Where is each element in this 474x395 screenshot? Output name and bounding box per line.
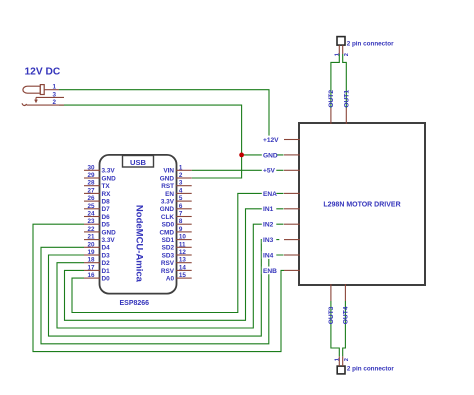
pin 15 (A0) of U1, right xyxy=(166,272,192,282)
pin OUT2 of L298N (top) xyxy=(328,90,335,124)
pin 18 (D2) of U1, left xyxy=(84,257,110,267)
pin 29 (GND) of U1, left xyxy=(84,172,116,182)
wire: GND junction to L298N GND pin xyxy=(242,154,284,156)
module U2 L298N motor driver xyxy=(299,123,425,285)
svg-text:27: 27 xyxy=(87,187,95,194)
svg-text:OUT2: OUT2 xyxy=(328,90,335,108)
svg-text:3: 3 xyxy=(179,180,183,187)
svg-text:2: 2 xyxy=(344,53,350,56)
svg-text:23: 23 xyxy=(87,218,95,225)
svg-text:16: 16 xyxy=(87,272,95,279)
wire: top connector pin2 to OUT1 xyxy=(343,54,347,108)
pin 6 (GND) of U1, right xyxy=(160,203,192,213)
pin 22 (GND) of U1, left xyxy=(84,226,116,236)
svg-text:12: 12 xyxy=(179,249,187,256)
svg-text:GND: GND xyxy=(160,206,175,213)
svg-text:26: 26 xyxy=(87,195,95,202)
pin IN3 of L298N with net label xyxy=(262,236,300,244)
svg-text:D6: D6 xyxy=(102,214,111,221)
connector J2 2 pin connector (top) xyxy=(337,37,345,46)
connector J3 2 pin connector (bottom) xyxy=(337,366,345,374)
svg-text:2: 2 xyxy=(179,172,183,179)
pin 16 (D0) of U1, left xyxy=(84,272,110,282)
pin OUT3 of L298N (bottom) xyxy=(328,284,335,324)
pin OUT1 of L298N (top) xyxy=(344,90,351,124)
svg-text:11: 11 xyxy=(179,241,186,248)
svg-text:CMD: CMD xyxy=(159,229,174,236)
svg-text:6: 6 xyxy=(179,203,183,210)
svg-text:13: 13 xyxy=(179,257,187,264)
wire: top connector pin1 to OUT2 xyxy=(331,54,339,108)
svg-text:1: 1 xyxy=(334,53,340,56)
pin 14 (RSV) of U1, right xyxy=(161,264,192,274)
label: 12V DC xyxy=(25,67,61,78)
svg-text:OUT4: OUT4 xyxy=(343,306,350,324)
svg-text:RSV: RSV xyxy=(161,268,175,275)
pin 12 (SD3) of U1, right xyxy=(162,249,192,259)
label: 2 pin connector (top) xyxy=(347,40,394,47)
svg-text:OUT1: OUT1 xyxy=(344,90,351,108)
wire: barrel jack pin1 to +12V of L298N xyxy=(59,90,269,138)
pin 21 (3.3V) of U1, left xyxy=(84,234,115,244)
svg-text:10: 10 xyxy=(179,234,187,241)
svg-text:SD0: SD0 xyxy=(162,222,175,229)
pin 28 (TX) of U1, left xyxy=(84,180,110,190)
svg-text:14: 14 xyxy=(179,264,187,271)
svg-text:29: 29 xyxy=(87,172,95,179)
wire: NodeMCU D0 to L298N ENA xyxy=(72,193,284,312)
svg-text:21: 21 xyxy=(87,234,95,241)
svg-text:3.3V: 3.3V xyxy=(102,237,116,244)
pin 2 (GND) of U1, right xyxy=(160,172,192,182)
svg-text:2: 2 xyxy=(52,99,56,106)
svg-text:D4: D4 xyxy=(102,245,111,252)
svg-text:RX: RX xyxy=(102,191,112,198)
svg-text:D7: D7 xyxy=(102,206,111,213)
svg-text:8: 8 xyxy=(179,218,183,225)
svg-text:20: 20 xyxy=(87,241,95,248)
pin 20 (D4) of U1, left xyxy=(84,241,110,251)
svg-text:+12V: +12V xyxy=(263,137,279,144)
svg-text:5: 5 xyxy=(179,195,183,202)
pin 9 (CMD) of U1, right xyxy=(159,226,191,236)
svg-text:2 pin connector: 2 pin connector xyxy=(347,40,394,47)
connector J1 barrel jack 12V DC xyxy=(22,85,44,106)
pin IN1 of L298N with net label xyxy=(262,205,300,213)
pin OUT4 of L298N (bottom) xyxy=(343,284,350,324)
wire: NodeMCU GND pin2 up to GND junction xyxy=(192,155,242,178)
pin IN4 of L298N with net label xyxy=(262,251,300,259)
svg-text:CLK: CLK xyxy=(161,214,175,221)
svg-text:3: 3 xyxy=(52,91,56,98)
svg-text:9: 9 xyxy=(179,226,183,233)
svg-text:RST: RST xyxy=(161,183,174,190)
pin 2 of J2 xyxy=(343,45,350,56)
pin 27 (RX) of U1, left xyxy=(84,187,111,197)
pin 3 (RST) of U1, right xyxy=(161,180,191,190)
svg-text:D1: D1 xyxy=(102,268,111,275)
svg-text:D3: D3 xyxy=(102,252,111,259)
svg-text:17: 17 xyxy=(87,264,95,271)
pin 26 (D8) of U1, left xyxy=(84,195,110,205)
svg-text:+5V: +5V xyxy=(263,168,276,175)
pin ENB of L298N with net label xyxy=(262,267,300,275)
pin 17 (D1) of U1, left xyxy=(84,264,110,274)
svg-text:25: 25 xyxy=(87,203,95,210)
pin 10 (SD1) of U1, right xyxy=(162,234,192,244)
wire: barrel jack pin2 to GND junction xyxy=(59,105,242,155)
pin 1 (VIN) of U1, right xyxy=(163,164,191,174)
pin +12V of L298N with net label xyxy=(262,136,300,144)
wire: NodeMCU D1 to L298N IN1 xyxy=(65,209,284,320)
svg-text:A0: A0 xyxy=(166,276,175,283)
svg-text:3.3V: 3.3V xyxy=(161,199,175,206)
pin 4 (EN) of U1, right xyxy=(165,187,192,197)
svg-text:12V DC: 12V DC xyxy=(25,67,61,78)
svg-text:SD2: SD2 xyxy=(162,245,175,252)
svg-text:IN4: IN4 xyxy=(263,252,274,259)
svg-text:GND: GND xyxy=(263,152,278,159)
svg-text:EN: EN xyxy=(165,191,174,198)
svg-text:TX: TX xyxy=(102,183,111,190)
pin 2 of J3 xyxy=(343,356,350,366)
label: 2 pin connector (bottom) xyxy=(347,366,394,373)
svg-text:ESP8266: ESP8266 xyxy=(120,300,150,307)
svg-text:1: 1 xyxy=(52,84,56,91)
pin 2 of J1 (sleeve) xyxy=(27,99,64,106)
svg-text:ENB: ENB xyxy=(263,268,277,275)
wire: NodeMCU D3 to L298N IN3 xyxy=(49,240,280,337)
label: ESP8266 value xyxy=(120,300,150,307)
svg-text:GND: GND xyxy=(102,175,117,182)
pin ENA of L298N with net label xyxy=(262,190,300,198)
svg-text:GND: GND xyxy=(102,229,117,236)
svg-text:7: 7 xyxy=(179,211,183,218)
svg-text:19: 19 xyxy=(87,249,95,256)
pin GND of L298N with net label xyxy=(262,151,300,159)
pin 11 (SD2) of U1, right xyxy=(162,241,192,251)
pin 13 (RSV) of U1, right xyxy=(161,257,192,267)
svg-text:28: 28 xyxy=(87,180,95,187)
svg-text:15: 15 xyxy=(179,272,187,279)
pin 19 (D3) of U1, left xyxy=(84,249,110,259)
pin 5 (3.3V) of U1, right xyxy=(161,195,192,205)
svg-text:SD1: SD1 xyxy=(162,237,175,244)
svg-text:4: 4 xyxy=(179,187,183,194)
svg-text:IN1: IN1 xyxy=(263,206,274,213)
wire: OUT4 to bottom connector pin2 xyxy=(343,301,346,356)
svg-text:30: 30 xyxy=(87,164,95,171)
svg-text:ENA: ENA xyxy=(263,191,277,198)
svg-text:2: 2 xyxy=(344,358,350,361)
svg-text:NodeMCU-Amica: NodeMCU-Amica xyxy=(134,205,145,283)
pin 24 (D6) of U1, left xyxy=(84,211,110,221)
svg-text:GND: GND xyxy=(160,175,175,182)
svg-text:D2: D2 xyxy=(102,260,111,267)
wire: OUT3 to bottom connector pin1 xyxy=(331,301,339,356)
svg-text:3.3V: 3.3V xyxy=(102,168,116,175)
pin 3 of J1 (switch) xyxy=(36,91,64,98)
svg-text:D8: D8 xyxy=(102,199,111,206)
svg-text:RSV: RSV xyxy=(161,260,175,267)
pin IN2 of L298N with net label xyxy=(262,220,300,228)
pin 1 of J3 xyxy=(334,356,340,366)
pin +5V of L298N with net label xyxy=(262,166,300,174)
pin 8 (SD0) of U1, right xyxy=(162,218,192,228)
pin 1 of J1 (tip) xyxy=(44,84,59,91)
junction: GND net junction dot xyxy=(239,153,244,158)
svg-text:1: 1 xyxy=(179,164,183,171)
svg-text:SD3: SD3 xyxy=(162,252,175,259)
svg-text:24: 24 xyxy=(87,211,95,218)
svg-text:IN3: IN3 xyxy=(263,237,274,244)
pin 7 (CLK) of U1, right xyxy=(161,211,192,221)
pin 30 (3.3V) of U1, left xyxy=(84,164,115,174)
svg-text:L298N MOTOR DRIVER: L298N MOTOR DRIVER xyxy=(323,201,400,208)
svg-text:IN2: IN2 xyxy=(263,222,274,229)
pin 25 (D7) of U1, left xyxy=(84,203,110,213)
wire: NodeMCU D5 to L298N ENB xyxy=(33,224,284,351)
svg-text:OUT3: OUT3 xyxy=(328,306,335,324)
module U1 NodeMCU-Amica ESP8266 xyxy=(100,155,177,294)
svg-text:D5: D5 xyxy=(102,222,111,229)
pin 23 (D5) of U1, left xyxy=(84,218,110,228)
wire: NodeMCU VIN to L298N +5V pin xyxy=(192,169,284,171)
svg-text:USB: USB xyxy=(130,158,147,167)
svg-text:2 pin connector: 2 pin connector xyxy=(347,366,394,373)
svg-text:1: 1 xyxy=(334,358,340,361)
pin 1 of J2 xyxy=(334,45,340,56)
svg-text:VIN: VIN xyxy=(163,168,174,175)
svg-text:18: 18 xyxy=(87,257,95,264)
wire: NodeMCU D4 to L298N IN4 xyxy=(41,247,284,343)
svg-text:22: 22 xyxy=(87,226,95,233)
wire: NodeMCU D2 to L298N IN2 xyxy=(57,224,284,328)
svg-text:D0: D0 xyxy=(102,276,111,283)
